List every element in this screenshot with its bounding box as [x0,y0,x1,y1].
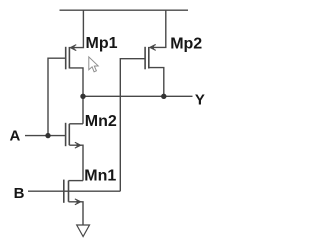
svg-text:Y: Y [195,92,205,109]
svg-text:B: B [14,185,25,202]
svg-text:Mn2: Mn2 [85,113,117,130]
svg-text:Mp2: Mp2 [170,36,202,53]
svg-text:Mp1: Mp1 [86,35,118,52]
svg-text:Mn1: Mn1 [84,167,116,184]
svg-text:A: A [10,128,21,145]
